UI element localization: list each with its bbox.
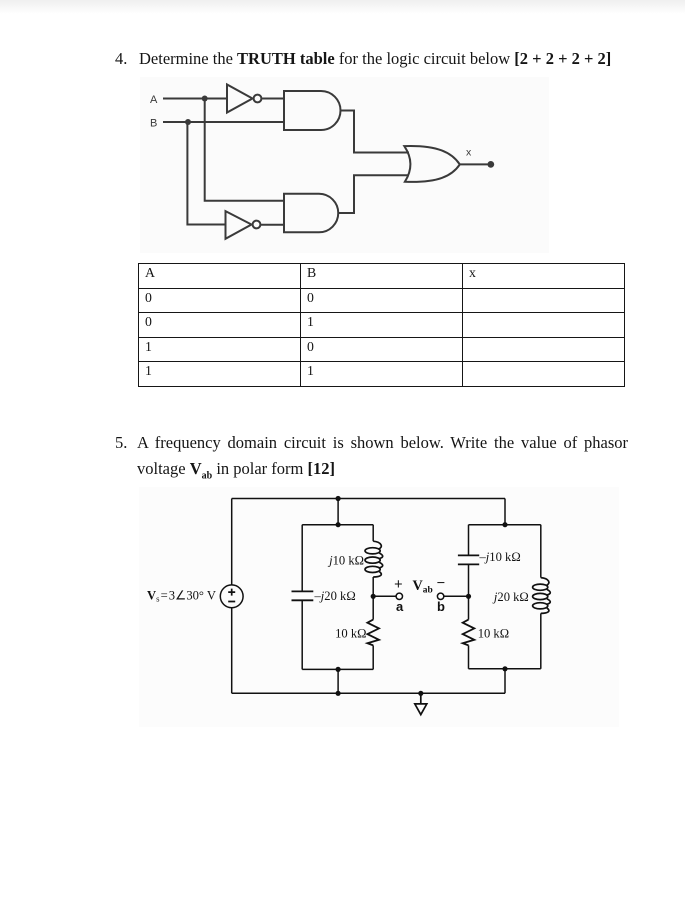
inverter NOT gate bottom: [226, 211, 252, 239]
terminal b: [437, 593, 443, 599]
faint scan band at top: [0, 0, 685, 14]
svg-text:−: −: [437, 576, 445, 592]
wire AND2 output to OR: [338, 175, 409, 213]
svg-text:Vab: Vab: [413, 578, 433, 595]
wire inverter to AND1: [262, 98, 285, 100]
wire OR output x: [460, 163, 488, 165]
svg-text:10 kΩ: 10 kΩ: [478, 627, 509, 641]
node b junction: [466, 594, 471, 599]
svg-text:Vs = 3∠30° V: Vs = 3∠30° V: [147, 588, 216, 603]
inductor j20k: [533, 578, 551, 614]
wire A branch down to AND2: [205, 99, 285, 201]
right box left wire lower: [468, 645, 470, 668]
node junction left box top: [336, 522, 341, 527]
phasor circuit figure: [140, 485, 610, 730]
node junction top: [336, 496, 341, 501]
left box right wire upper: [372, 525, 374, 542]
picture background q4: [140, 77, 549, 253]
Question 4 text: [115, 46, 630, 72]
AND gate top: [284, 91, 341, 130]
right box left wire upper: [468, 525, 470, 556]
right box left wire middle: [468, 564, 470, 619]
node a junction: [371, 594, 376, 599]
node junction right box top: [502, 522, 507, 527]
left box top edge: [302, 524, 373, 526]
AND gate bottom: [284, 194, 338, 233]
wire inverter2 to AND2: [261, 224, 285, 226]
OR gate: [404, 146, 460, 182]
wire left vertical: [231, 499, 233, 694]
resistor 10k right: [463, 620, 475, 646]
inductor j10k: [365, 541, 383, 577]
right box bottom edge: [469, 668, 541, 670]
svg-text:b: b: [437, 599, 445, 614]
wire to terminal a: [373, 595, 396, 597]
truth table: [138, 263, 625, 387]
wire A input: [163, 98, 227, 100]
svg-text:10 kΩ: 10 kΩ: [335, 627, 366, 641]
wire top feed left box: [337, 499, 339, 525]
capacitor -j20k: [292, 591, 314, 600]
svg-text:B: B: [150, 118, 157, 130]
left box right wire lower: [372, 645, 374, 669]
resistor 10k left: [367, 620, 379, 646]
left box left wire lower: [301, 600, 303, 669]
right box top edge: [469, 524, 541, 526]
left box right wire middle: [372, 577, 374, 620]
node junction left box bottom: [336, 667, 341, 672]
capacitor -j10k: [458, 555, 479, 564]
voltage source Vs: [220, 585, 243, 608]
node junction ground: [418, 691, 423, 696]
svg-text:j10 kΩ: j10 kΩ: [327, 553, 364, 567]
inverter NOT gate top: [227, 85, 253, 113]
node junction on B: [185, 119, 191, 125]
right box right wire upper: [540, 525, 542, 578]
wire AND1 output to OR: [341, 111, 410, 153]
wire right box to bottom: [504, 669, 506, 694]
left box bottom edge: [302, 668, 373, 670]
terminal a: [396, 593, 402, 599]
node junction right box bottom: [502, 666, 507, 671]
svg-text:A: A: [150, 94, 158, 106]
svg-text:–j10 kΩ: –j10 kΩ: [479, 550, 521, 564]
left box left wire upper: [301, 525, 303, 592]
wire to terminal b: [444, 595, 469, 597]
wire top right corner down: [504, 499, 506, 525]
right box right wire lower: [540, 613, 542, 668]
node junction bottom left: [336, 691, 341, 696]
svg-text:j20 kΩ: j20 kΩ: [492, 590, 529, 604]
node output terminal: [487, 161, 494, 168]
Question 5 text: [115, 430, 628, 489]
logic circuit figure: [140, 78, 550, 253]
wire B input: [163, 121, 284, 123]
svg-text:a: a: [396, 599, 404, 614]
picture background q5: [139, 487, 619, 727]
svg-text:x: x: [466, 147, 472, 159]
node junction on A: [202, 96, 208, 102]
wire bottom: [232, 692, 505, 694]
wire top: [232, 498, 505, 500]
wire left box to bottom: [337, 669, 339, 693]
wire B branch down to inverter2: [187, 122, 225, 225]
ground: [415, 693, 427, 714]
svg-text:–j20 kΩ: –j20 kΩ: [314, 589, 356, 603]
svg-text:+: +: [394, 577, 402, 593]
